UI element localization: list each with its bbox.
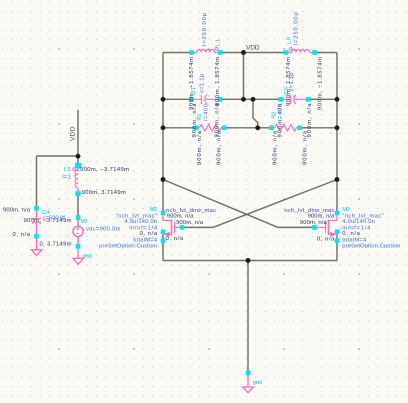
svg-text:c=1.1p: c=1.1p bbox=[200, 74, 206, 93]
svg-text:900m, −3.7149m: 900m, −3.7149m bbox=[80, 167, 129, 173]
svg-text:R1: R1 bbox=[197, 114, 203, 121]
svg-text:r=400: r=400 bbox=[204, 104, 210, 121]
svg-text:L1: L1 bbox=[216, 39, 222, 46]
svg-text:900m, n/a: 900m, n/a bbox=[303, 130, 309, 165]
svg-text:0, n/a: 0, n/a bbox=[342, 231, 360, 237]
svg-text:4.0u/140.0n: 4.0u/140.0n bbox=[342, 219, 375, 225]
svg-text:900m, n/a: 900m, n/a bbox=[217, 130, 223, 165]
svg-text:l=250.00p: l=250.00p bbox=[294, 12, 300, 45]
svg-text:900m, n/a: 900m, n/a bbox=[176, 220, 204, 226]
svg-text:900m, −1.8574m: 900m, −1.8574m bbox=[317, 57, 323, 110]
svg-text:0, n/a: 0, n/a bbox=[166, 236, 184, 242]
svg-text:V0: V0 bbox=[81, 219, 88, 225]
svg-text:L0: L0 bbox=[286, 37, 292, 44]
svg-text:900m, n/a: 900m, n/a bbox=[272, 130, 278, 165]
svg-text:4.0u/140.0n: 4.0u/140.0n bbox=[125, 219, 158, 225]
svg-text:900m, 1.8574m: 900m, 1.8574m bbox=[215, 57, 221, 106]
svg-text:C1: C1 bbox=[191, 87, 197, 95]
svg-text:900m, n/a: 900m, n/a bbox=[197, 130, 203, 165]
svg-text:900m, −1.8574m: 900m, −1.8574m bbox=[189, 57, 195, 110]
svg-text:0, n/a: 0, n/a bbox=[317, 236, 335, 242]
svg-text:900m, n/a: 900m, n/a bbox=[3, 207, 31, 213]
svg-text:preSetOption:Custom: preSetOption:Custom bbox=[99, 243, 157, 249]
svg-text:r=400: r=400 bbox=[278, 104, 284, 121]
svg-text:L5: L5 bbox=[64, 167, 71, 173]
svg-text:gnd: gnd bbox=[83, 254, 92, 260]
svg-text:900m, n/a: 900m, n/a bbox=[300, 220, 328, 226]
svg-text:gnd: gnd bbox=[253, 380, 262, 386]
svg-text:VDD: VDD bbox=[246, 45, 260, 52]
svg-text:900m, n/a: 900m, n/a bbox=[308, 213, 336, 219]
svg-text:900m, n/a: 900m, n/a bbox=[167, 213, 195, 219]
svg-text:VDD: VDD bbox=[70, 126, 77, 141]
svg-text:0, n/a: 0, n/a bbox=[140, 231, 158, 237]
svg-text:0, 3.7149m: 0, 3.7149m bbox=[40, 242, 72, 248]
svg-text:vdc=900.0m: vdc=900.0m bbox=[86, 226, 121, 232]
svg-text:M0: M0 bbox=[342, 207, 349, 213]
svg-text:c=500.0f: c=500.0f bbox=[43, 216, 65, 222]
svg-text:l=250.00p: l=250.00p bbox=[202, 13, 208, 46]
svg-text:900m, 3.7149m: 900m, 3.7149m bbox=[82, 190, 126, 196]
svg-text:preSetOption:Custom: preSetOption:Custom bbox=[342, 243, 400, 249]
svg-text:c=1.1p: c=1.1p bbox=[289, 73, 295, 92]
svg-text:R2: R2 bbox=[271, 112, 277, 119]
svg-text:0, n/a: 0, n/a bbox=[13, 232, 31, 238]
svg-text:M2: M2 bbox=[150, 207, 157, 213]
svg-text:l=1: l=1 bbox=[62, 174, 71, 180]
